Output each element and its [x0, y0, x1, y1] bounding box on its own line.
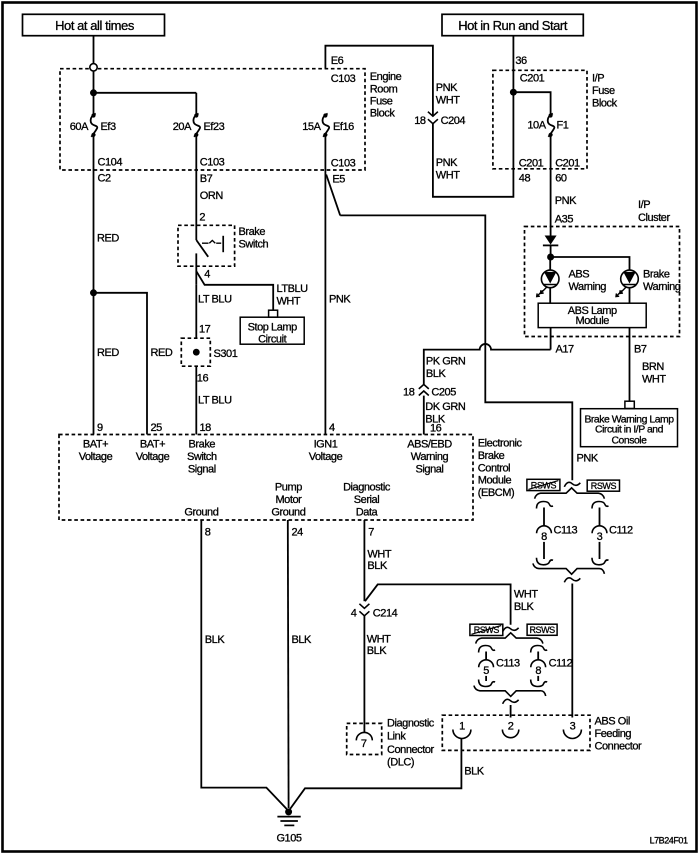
label PNK A35 [555, 195, 577, 225]
svg-text:Ef23: Ef23 [204, 121, 225, 133]
wire batt bus to Ef23 [94, 92, 197, 94]
wire C113-5 down [485, 676, 487, 681]
connector C205 inline [403, 384, 456, 398]
connector hook lower C112 top [531, 646, 548, 653]
wire branch serial to RSWS pair [365, 584, 511, 624]
svg-text:RED: RED [97, 233, 119, 245]
fuse Ef16 15A [302, 113, 354, 136]
svg-text:Cluster: Cluster [638, 212, 670, 224]
svg-text:Feeding: Feeding [595, 728, 632, 740]
I/P cluster enclosure [525, 227, 680, 337]
wire sense run to PNK drop [340, 215, 572, 480]
wire branch to C113-8 [543, 508, 545, 526]
svg-text:9: 9 [97, 422, 103, 434]
wire C113-8 down [543, 542, 545, 559]
svg-text:BLK: BLK [426, 368, 447, 380]
svg-text:PNK: PNK [577, 453, 599, 465]
svg-text:3: 3 [570, 721, 576, 733]
connector C214 inline [351, 604, 398, 620]
node junction in I/P fuse block [510, 89, 517, 96]
svg-text:Electronic: Electronic [478, 438, 523, 450]
connector C201 pin 60 labels [555, 158, 580, 185]
svg-text:C112: C112 [609, 525, 633, 537]
wire BLK pin24 to G105 [288, 520, 312, 808]
connector C112 pin 3 [592, 525, 633, 544]
svg-text:Serial: Serial [354, 494, 379, 506]
svg-text:C2: C2 [98, 173, 111, 185]
switch arm brake switch [196, 240, 208, 257]
svg-text:C104: C104 [98, 157, 123, 169]
svg-text:(EBCM): (EBCM) [478, 487, 514, 499]
connector hook C113 top [537, 502, 554, 509]
svg-text:60A: 60A [70, 121, 89, 133]
inline connector break upper out [564, 578, 580, 582]
svg-text:LT BLU: LT BLU [198, 395, 232, 407]
node junction batt bus [90, 89, 97, 96]
brake warning lamp circuit connector square [625, 401, 634, 408]
svg-text:BAT+: BAT+ [140, 439, 165, 451]
svg-text:Brake: Brake [478, 450, 505, 462]
svg-text:Signal: Signal [416, 464, 444, 476]
wire RED branch to pin 25 [94, 293, 173, 435]
DLC label [387, 718, 435, 769]
svg-text:WHT: WHT [642, 374, 666, 386]
svg-text:C204: C204 [441, 115, 466, 127]
svg-text:L7B24F01: L7B24F01 [650, 835, 688, 845]
svg-text:Brake Warning Lamp: Brake Warning Lamp [584, 414, 674, 425]
svg-text:Brake: Brake [643, 269, 670, 281]
svg-text:DK GRN: DK GRN [425, 401, 466, 413]
svg-text:C201: C201 [520, 73, 545, 85]
svg-text:18: 18 [200, 422, 212, 434]
DLC cavity 7 [356, 732, 372, 750]
label BRN WHT [642, 361, 666, 386]
node Hot at all times [23, 14, 165, 35]
svg-text:Ground: Ground [271, 507, 305, 519]
label WHT BLK at branch [514, 589, 538, 614]
fuse Ef23 20A [173, 113, 225, 136]
svg-text:18: 18 [414, 115, 426, 127]
connector hook lower C112 bottom [531, 680, 548, 687]
label LTBLU WHT [277, 283, 309, 308]
connector C103 pin E5 labels [331, 158, 356, 186]
fuse F1 10A [527, 113, 568, 136]
svg-text:ORN: ORN [200, 190, 224, 202]
svg-text:LT BLU: LT BLU [198, 294, 232, 306]
I/P cluster label [638, 199, 670, 224]
svg-text:C214: C214 [373, 608, 398, 620]
svg-text:(DLC): (DLC) [387, 757, 414, 769]
svg-text:BRN: BRN [642, 361, 664, 373]
diode at A35 [543, 236, 558, 258]
svg-text:Signal: Signal [188, 464, 216, 476]
terminal ring at fuse block entry [90, 64, 97, 71]
svg-text:48: 48 [519, 173, 531, 185]
EBCM enclosure [59, 435, 473, 521]
connector C201 pin 48 labels [519, 158, 544, 185]
svg-text:Voltage: Voltage [309, 451, 343, 463]
svg-text:Pump: Pump [275, 482, 302, 494]
ground G105 symbol [276, 817, 301, 845]
svg-text:Link: Link [387, 731, 406, 743]
option box RSWS (with) upper [587, 480, 619, 491]
svg-text:Brake: Brake [239, 226, 266, 238]
svg-text:Ef3: Ef3 [101, 121, 116, 133]
svg-text:Diagnostic: Diagnostic [387, 718, 435, 730]
svg-text:BLK: BLK [292, 634, 313, 646]
connector hook C113 bottom [537, 558, 554, 565]
svg-text:B7: B7 [200, 173, 213, 185]
wire B7 from lamp module [629, 328, 631, 402]
connector C103 pin B7 label [200, 157, 225, 203]
svg-text:PNK: PNK [555, 195, 577, 207]
svg-text:RED: RED [151, 347, 173, 359]
EBCM pin name ABS/EBD Warning Signal [407, 439, 452, 476]
svg-text:Data: Data [356, 507, 379, 519]
svg-text:G105: G105 [276, 833, 301, 845]
wire 36 feed from Hot in Run [512, 36, 514, 169]
svg-text:B7: B7 [634, 344, 647, 356]
inline connector break upper [564, 482, 580, 486]
svg-text:PNK: PNK [329, 294, 351, 306]
svg-text:10A: 10A [527, 120, 546, 132]
svg-text:Diagnostic: Diagnostic [343, 482, 391, 494]
svg-text:RSWS: RSWS [529, 625, 555, 635]
I/P fuse block label [592, 73, 618, 110]
svg-text:5: 5 [483, 665, 489, 677]
wire to brake warning lamp [551, 257, 630, 270]
svg-text:BAT+: BAT+ [83, 439, 108, 451]
svg-text:ABS/EBD: ABS/EBD [407, 439, 452, 451]
EBCM pin name BAT+ Voltage 25 [136, 439, 170, 464]
engine room fuse block (left) enclosure [60, 69, 365, 170]
pin E6 / connector C103 labels [331, 55, 356, 85]
svg-text:Fuse: Fuse [370, 96, 393, 108]
node Hot in Run and Start [442, 14, 583, 35]
connector C204 inline [414, 112, 465, 127]
svg-text:C103: C103 [331, 158, 356, 170]
svg-text:Stop Lamp: Stop Lamp [248, 322, 297, 334]
svg-text:RSWS: RSWS [591, 481, 617, 491]
brake switch S201 enclosure [178, 225, 235, 266]
svg-text:18: 18 [403, 387, 415, 399]
svg-text:C113: C113 [496, 658, 520, 670]
svg-text:Connector: Connector [595, 741, 642, 753]
svg-text:Block: Block [592, 98, 618, 110]
I/P fuse block enclosure [493, 70, 587, 169]
svg-text:Voltage: Voltage [79, 451, 113, 463]
svg-text:RED: RED [97, 347, 119, 359]
svg-text:WHT: WHT [367, 549, 391, 561]
wire branch to C112-3 [599, 508, 601, 526]
svg-text:Voltage: Voltage [136, 451, 170, 463]
svg-text:PK GRN: PK GRN [426, 356, 466, 368]
svg-text:BLK: BLK [367, 560, 388, 572]
svg-text:17: 17 [199, 324, 211, 336]
svg-text:7: 7 [361, 738, 367, 750]
svg-text:4: 4 [204, 269, 210, 281]
wire C112-8 down [537, 676, 539, 681]
svg-text:ABS Oil: ABS Oil [595, 716, 630, 728]
svg-text:LTBLU: LTBLU [277, 283, 309, 295]
wire brake switch lower contact [195, 253, 197, 284]
svg-text:Module: Module [576, 315, 610, 327]
wire BLK pin 1 to G105 [289, 739, 485, 812]
svg-text:PNK: PNK [436, 157, 458, 169]
ABS oil feeding connector label [595, 716, 642, 753]
wire WHT BLK pin7 down [364, 520, 391, 601]
svg-text:S301: S301 [214, 348, 238, 360]
wire branch E5 diagonal [326, 175, 340, 216]
wire to ABS oil pin 2 [510, 705, 512, 718]
svg-text:Room: Room [370, 84, 398, 96]
wire Ef23 feed [195, 93, 197, 116]
svg-text:I/P: I/P [592, 73, 604, 85]
brake switch label [239, 226, 269, 251]
svg-text:A17: A17 [556, 344, 575, 356]
svg-text:Connector: Connector [387, 744, 434, 756]
wire PNK F1 to A35 diode [550, 135, 552, 236]
svg-text:Block: Block [370, 108, 396, 120]
svg-text:BLK: BLK [514, 601, 535, 613]
splice S301 node [193, 348, 238, 360]
inline connector break lower out [503, 699, 519, 703]
ABS lamp module block [538, 303, 646, 327]
brake warning lamp circuit block [581, 409, 678, 447]
svg-text:8: 8 [541, 531, 547, 543]
diagnostic link connector enclosure [347, 723, 382, 754]
EBCM pin name IGN1 Voltage [309, 439, 343, 464]
wire RED to pin 9 [94, 293, 120, 435]
svg-text:24: 24 [292, 527, 304, 539]
connector C104 pin C2 label [98, 157, 123, 185]
label PK GRN BLK [426, 356, 466, 381]
ground G105 node [285, 808, 292, 815]
stop lamp circuit block [240, 317, 304, 345]
svg-text:7: 7 [368, 527, 374, 539]
svg-text:Brake: Brake [189, 439, 216, 451]
connector hook C112 top [592, 502, 609, 509]
wire ABS lamp to module [549, 288, 551, 304]
svg-text:C205: C205 [431, 387, 456, 399]
svg-text:WHT: WHT [277, 296, 301, 308]
svg-text:BLK: BLK [205, 634, 226, 646]
option box RSWS (without) lower [470, 624, 503, 635]
svg-text:PNK: PNK [436, 82, 458, 94]
wire branch to C113-5 [485, 652, 487, 660]
wire branch to C112-8 [537, 652, 539, 660]
wire to fuse F1 [513, 92, 550, 115]
ABS oil feeding connector enclosure [442, 715, 590, 750]
svg-text:Circuit: Circuit [258, 333, 286, 345]
engine room fuse block label [370, 71, 402, 120]
svg-text:3: 3 [597, 531, 603, 543]
svg-text:Warning: Warning [411, 451, 449, 463]
svg-text:Fuse: Fuse [592, 85, 615, 97]
wire Brake lamp to module [629, 288, 631, 304]
svg-text:E5: E5 [332, 174, 345, 186]
svg-text:Circuit in I/P and: Circuit in I/P and [595, 425, 664, 436]
svg-text:IGN1: IGN1 [314, 439, 338, 451]
option box RSWS (with) lower [527, 624, 557, 635]
wire C112-3 down [599, 542, 601, 559]
lamp ABS Warning [537, 269, 607, 297]
svg-text:BLK: BLK [367, 645, 388, 657]
wire into fuse block [93, 71, 95, 115]
svg-text:4: 4 [351, 608, 357, 620]
svg-text:C201: C201 [519, 158, 544, 170]
svg-text:8: 8 [535, 665, 541, 677]
wire A17 from lamp module [550, 328, 552, 350]
wire PNK WHT C204 to C201-48 [433, 124, 514, 197]
svg-text:E6: E6 [331, 55, 344, 67]
svg-text:15A: 15A [302, 121, 321, 133]
svg-text:Module: Module [478, 474, 512, 486]
lamp Brake Warning [616, 269, 681, 297]
svg-text:60: 60 [555, 173, 567, 185]
svg-text:Switch: Switch [239, 239, 269, 251]
merge brace lower pair [474, 686, 546, 697]
svg-text:WHT: WHT [436, 170, 460, 182]
connector C113 pin 8 [537, 525, 578, 544]
svg-text:F1: F1 [557, 120, 569, 132]
switch linkage dashed [202, 240, 221, 243]
svg-text:I/P: I/P [638, 199, 650, 211]
EBCM label [478, 438, 523, 500]
svg-text:25: 25 [151, 422, 163, 434]
wire WHT BLK C214 to DLC [364, 616, 391, 733]
svg-text:Engine: Engine [370, 71, 402, 83]
svg-text:A35: A35 [555, 213, 574, 225]
svg-text:C113: C113 [554, 525, 578, 537]
svg-text:16: 16 [197, 373, 209, 385]
wire LTBLU/WHT branch to stop lamp [196, 271, 273, 310]
svg-text:4: 4 [329, 422, 335, 434]
connector hook lower C113 bottom [479, 680, 496, 687]
svg-text:1: 1 [459, 721, 465, 733]
svg-text:WHT: WHT [514, 589, 538, 601]
svg-text:WHT: WHT [436, 95, 460, 107]
merge brace upper pair [533, 563, 605, 574]
svg-text:Hot at all times: Hot at all times [55, 18, 135, 33]
svg-text:WHT: WHT [367, 634, 391, 646]
svg-text:2: 2 [199, 212, 205, 224]
svg-text:Hot in Run and Start: Hot in Run and Start [458, 18, 568, 33]
svg-text:C103: C103 [200, 157, 225, 169]
label PNK WHT upper [436, 82, 460, 107]
svg-text:C201: C201 [555, 158, 580, 170]
svg-text:16: 16 [430, 423, 442, 435]
svg-text:20A: 20A [173, 121, 192, 133]
wire to ABS warning lamp [549, 257, 551, 270]
svg-text:2: 2 [508, 721, 514, 733]
wire LT BLU S301 to pin 18 [196, 366, 232, 434]
wire PNK to ABS oil pin 3 [571, 584, 573, 718]
EBCM pin name BAT+ Voltage 9 [79, 439, 113, 464]
option box RSWS (without) upper [527, 479, 560, 490]
EBCM pin name Diagnostic Serial Data [343, 482, 391, 519]
connector C112 pin 8 [531, 658, 573, 678]
svg-text:Switch: Switch [187, 451, 217, 463]
wire DK GRN BLK to pin 16 [423, 396, 425, 435]
ABS oil cavity 2 [502, 721, 518, 738]
stop lamp connector square [269, 310, 278, 317]
wire A17 horizontal with hop to C205 drop [424, 344, 551, 384]
branch brace lower pair [476, 633, 543, 644]
svg-text:Console: Console [612, 436, 648, 447]
svg-text:8: 8 [205, 527, 211, 539]
svg-text:Motor: Motor [275, 494, 302, 506]
svg-text:Warning: Warning [569, 281, 607, 293]
node junction lamp feed [547, 254, 554, 261]
splice S301 enclosure [181, 338, 210, 366]
svg-text:C112: C112 [549, 658, 573, 670]
svg-text:36: 36 [515, 55, 527, 67]
svg-text:Warning: Warning [643, 281, 681, 293]
label DK GRN BLK 16 [425, 401, 466, 435]
wire BLK pin8 to G105 [201, 520, 288, 811]
fuse Ef3 60A [70, 113, 116, 136]
connector hook lower C113 top [479, 646, 496, 653]
wire bus E6 over to C204 [325, 46, 433, 117]
EBCM pin name Brake Switch Signal [187, 439, 217, 476]
svg-text:Control: Control [478, 462, 510, 474]
EBCM pin name Pump Motor Ground [271, 482, 305, 519]
connector hook C112 bottom [592, 558, 609, 565]
wire LT BLU to S301 [196, 285, 232, 338]
node junction RED split [90, 289, 97, 296]
switch plunger bar [222, 236, 224, 252]
ABS oil cavity 3 [563, 721, 581, 739]
wire PNK Ef16 to IGN1 pin 4 [325, 135, 351, 435]
wire ORN Ef23 to brake switch [195, 135, 197, 240]
svg-text:BLK: BLK [464, 766, 485, 778]
svg-text:Ground: Ground [184, 507, 218, 519]
wire battery feed from Hot at all times [93, 36, 95, 64]
svg-text:C103: C103 [331, 73, 356, 85]
wire RED Ef3 to junction [94, 135, 120, 293]
connector C113 pin 5 [479, 658, 520, 678]
svg-text:ABS: ABS [569, 269, 590, 281]
inline connector break lower [503, 627, 519, 631]
label PNK WHT lower [436, 157, 460, 182]
branch brace upper pair [535, 488, 605, 499]
ABS oil cavity 1 [453, 721, 471, 739]
svg-text:Ef16: Ef16 [333, 121, 354, 133]
